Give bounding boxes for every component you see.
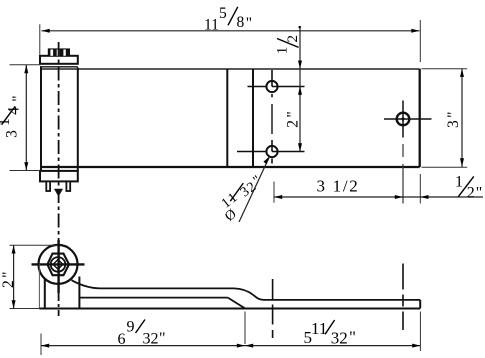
svg-text:11: 11 (311, 319, 327, 338)
svg-text:32: 32 (143, 330, 159, 347)
svg-text:32: 32 (331, 329, 348, 348)
svg-text:1: 1 (455, 174, 463, 191)
svg-text:": " (349, 328, 356, 347)
svg-text:": " (159, 330, 166, 347)
svg-text:3: 3 (445, 120, 462, 128)
svg-text:": " (284, 111, 301, 117)
svg-text:2: 2 (284, 120, 301, 128)
svg-text:1: 1 (275, 47, 291, 55)
svg-text:11: 11 (204, 17, 219, 34)
svg-text:2: 2 (0, 280, 17, 288)
svg-text:": " (445, 111, 462, 117)
svg-text:3: 3 (3, 130, 20, 138)
svg-text:5: 5 (219, 5, 227, 22)
svg-text:4: 4 (6, 107, 23, 115)
svg-text:2: 2 (467, 185, 475, 202)
svg-text:": " (476, 185, 483, 202)
svg-text:2: 2 (285, 35, 301, 43)
svg-text:3 1/2: 3 1/2 (317, 177, 360, 196)
svg-text:9: 9 (127, 319, 135, 336)
svg-text:": " (246, 15, 252, 32)
svg-text:": " (0, 271, 17, 277)
svg-text:8: 8 (237, 14, 245, 31)
svg-text:6: 6 (118, 331, 126, 348)
svg-text:": " (10, 95, 27, 101)
